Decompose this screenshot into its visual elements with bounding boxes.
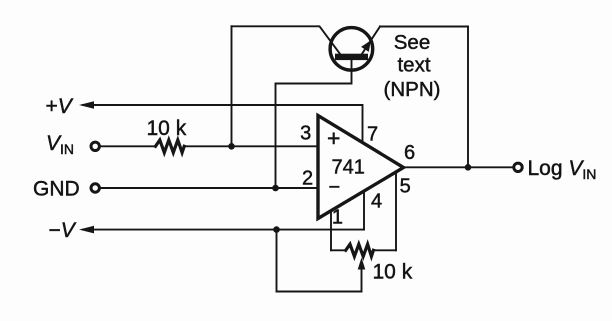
pin labels xyxy=(300,123,415,229)
wire top rail left to collector xyxy=(232,26,341,54)
transistor base bar xyxy=(335,54,368,60)
label 10 k pot xyxy=(373,261,413,284)
svg-text:GND: GND xyxy=(33,178,80,201)
svg-text:+V: +V xyxy=(46,95,74,118)
wire node A up to top rail xyxy=(231,26,233,146)
label -V xyxy=(49,219,77,242)
label 10 k xyxy=(147,117,187,140)
node B junction dot xyxy=(272,185,279,192)
svg-text:3: 3 xyxy=(300,123,311,145)
wire VIN to resistor xyxy=(100,145,156,147)
arrowhead -V xyxy=(79,226,94,234)
wire -V node down and to wiper xyxy=(277,230,362,292)
svg-text:10 k: 10 k xyxy=(147,117,187,140)
svg-text:text: text xyxy=(397,54,430,77)
arrowhead +V xyxy=(79,101,94,109)
resistor R1 10 k xyxy=(156,140,185,153)
label See text (NPN) xyxy=(384,31,441,101)
svg-text:−V: −V xyxy=(49,219,77,242)
wire -V rail to pin 4 xyxy=(83,229,364,231)
node A junction dot xyxy=(228,143,235,150)
wire GND to pin 2 xyxy=(100,187,318,189)
svg-text:VIN: VIN xyxy=(46,132,74,157)
node C junction dot xyxy=(273,226,280,233)
terminal GND xyxy=(91,184,99,192)
terminal VIN xyxy=(91,142,99,150)
wire output to terminal xyxy=(404,166,514,168)
svg-text:(NPN): (NPN) xyxy=(384,78,441,101)
wire pin 4 up xyxy=(363,191,365,230)
svg-text:10 k: 10 k xyxy=(373,261,413,284)
potentiometer wiper arrow xyxy=(361,265,363,292)
svg-text:4: 4 xyxy=(371,191,382,213)
svg-text:See: See xyxy=(394,31,430,54)
transistor Q1 xyxy=(330,28,373,71)
svg-text:Log VIN: Log VIN xyxy=(528,157,597,182)
svg-text:5: 5 xyxy=(400,176,411,198)
wire emitter rail down to output xyxy=(467,27,469,168)
svg-text:+: + xyxy=(327,125,340,151)
svg-text:6: 6 xyxy=(404,142,415,164)
svg-text:1: 1 xyxy=(332,207,343,229)
wire pin 1 down xyxy=(330,211,332,250)
wire +V rail to pin 7 xyxy=(83,105,363,141)
svg-text:7: 7 xyxy=(367,124,378,146)
transistor emitter with arrow xyxy=(362,27,381,55)
svg-text:741: 741 xyxy=(332,157,365,179)
svg-text:2: 2 xyxy=(302,168,313,190)
label GND xyxy=(33,178,80,201)
svg-text:−: − xyxy=(329,177,341,199)
op-amp U1 741 xyxy=(318,116,404,219)
label +V xyxy=(46,95,74,118)
node output junction dot xyxy=(465,164,472,171)
wire resistor to pin 3 xyxy=(184,145,318,147)
wire top rail right xyxy=(380,26,468,28)
potentiometer R2 10 k xyxy=(331,249,346,251)
terminal output xyxy=(514,163,522,171)
label VIN xyxy=(46,132,74,157)
wire transistor base to GND line xyxy=(276,60,352,188)
wire pin 5 down xyxy=(395,172,397,251)
label Log VIN xyxy=(528,157,597,182)
